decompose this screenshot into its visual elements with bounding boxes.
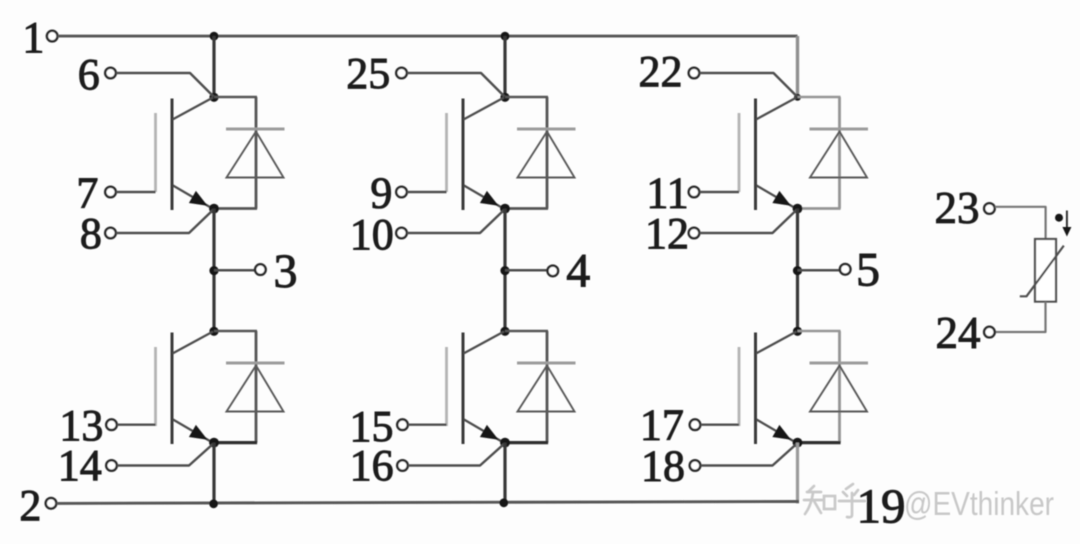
wire: terminal 25 to Q3 collector [407, 73, 505, 97]
wire: Q2 emitter to DC- rail [212, 443, 215, 504]
wire: terminal 11 to Q5 gate [699, 191, 739, 193]
svg-text:5: 5 [856, 243, 880, 296]
terminal pin 18 (aux emitter of Q6) [690, 460, 701, 471]
node: phase output junction (terminal 4) [500, 266, 509, 275]
node: Q4 emitter junction [500, 438, 510, 448]
wire: phase node to terminal 4 [505, 269, 548, 272]
wire: Q2 collector to D2 cathode branch [214, 330, 257, 333]
wire: terminal 15 to Q4 gate [408, 424, 447, 426]
node: Q2 collector junction [209, 327, 218, 336]
thermistor temperature down-arrow [1066, 211, 1068, 230]
wire: terminal 17 to Q6 gate [700, 424, 739, 426]
wire: terminal 7 to Q1 gate [116, 191, 156, 193]
wire: Q1 emitter to Q2 collector (phase rail) [212, 209, 215, 332]
wire: terminal 10 to Q3 emitter [407, 210, 505, 234]
wire: DC+ rail drop to Q3 collector [503, 36, 506, 97]
node: Q5 emitter junction [793, 204, 803, 214]
wire: NTC RT1 to terminal 24 [995, 302, 1046, 332]
wire: D4 anode branch to Q4 emitter [505, 441, 548, 444]
wire: DC+ rail corner drop to leg 3 [796, 36, 799, 97]
terminal pin 4 (phase output) [548, 266, 559, 277]
node: Q2 emitter junction [209, 438, 219, 448]
wire: terminal 9 to Q3 gate [407, 191, 447, 193]
wire: D6 anode branch to Q6 emitter [798, 441, 841, 444]
terminal pin 16 (aux emitter of Q4) [397, 460, 408, 471]
terminal pin 2 (DC- bus) [46, 498, 57, 509]
terminal pin 15 (gate of Q4) [397, 419, 408, 430]
svg-text:3: 3 [274, 245, 298, 298]
IGBT Q5 (upper switch, leg 3) [739, 98, 797, 211]
terminal pin 11 (gate of Q5) [689, 187, 700, 198]
node: Q4 collector junction [500, 327, 509, 336]
thermistor RT1 body [1035, 239, 1056, 302]
node: DC- rail / leg 2 junction [499, 498, 508, 507]
wire: Q6 collector to D6 cathode branch [798, 330, 841, 333]
node: Q3 collector junction [500, 93, 509, 102]
wire: phase node to terminal 5 [798, 269, 841, 272]
terminal pin 14 (aux emitter of Q2) [106, 460, 117, 471]
svg-text:23: 23 [935, 183, 980, 233]
diode D3 (antiparallel to Q3) [517, 97, 576, 209]
node: DC- rail / leg 1 junction [209, 499, 218, 508]
wire: terminal 14 to Q2 emitter [117, 444, 214, 466]
node: Q3 emitter junction [500, 204, 510, 214]
IGBT Q1 (upper switch, leg 1) [156, 98, 214, 211]
terminal pin 6 (aux collector) [105, 68, 116, 79]
svg-text:8: 8 [80, 209, 102, 258]
wire: terminal 23 to NTC RT1 [995, 207, 1046, 240]
svg-text:2: 2 [19, 481, 41, 530]
terminal pin 17 (gate of Q6) [690, 419, 701, 430]
thermistor RT1 diagonal stroke [1020, 246, 1064, 297]
wire: terminal 8 to Q1 emitter [116, 210, 214, 234]
svg-text:22: 22 [639, 47, 683, 96]
wire: DC+ top rail [58, 35, 798, 38]
node: Q6 collector junction [793, 327, 802, 336]
svg-text:25: 25 [346, 49, 390, 98]
node: phase output junction (terminal 5) [793, 266, 802, 275]
wire: Q4 collector to D4 cathode branch [505, 330, 548, 333]
watermark 知乎 logo glyphs [804, 484, 865, 517]
terminal pin 13 (gate of Q2) [106, 419, 117, 430]
terminal pin 23 (NTC) [984, 203, 995, 214]
IGBT Q2 (lower switch, leg 1) [156, 332, 214, 445]
wire: terminal 12 to Q5 emitter [699, 210, 797, 234]
diode D4 (antiparallel to Q4) [517, 331, 576, 443]
wire: terminal 16 to Q4 emitter [408, 444, 505, 466]
terminal pin 24 (NTC) [984, 327, 995, 338]
IGBT Q3 (upper switch, leg 2) [447, 98, 505, 211]
node: Q5 collector junction [794, 94, 801, 101]
wire: Q1 collector to D1 cathode branch [214, 96, 257, 99]
node: Q1 emitter junction [209, 204, 219, 214]
terminal pin 25 (aux collector) [396, 68, 407, 79]
wire: D3 anode branch to Q3 emitter [505, 207, 548, 210]
svg-text:24: 24 [936, 308, 981, 358]
terminal pin 12 (aux emitter of Q5) [689, 228, 700, 239]
node: Q1 collector junction [209, 93, 218, 102]
svg-text:1: 1 [22, 13, 44, 62]
svg-text:10: 10 [350, 210, 394, 259]
IGBT Q4 (lower switch, leg 2) [447, 332, 505, 445]
terminal pin 5 (phase output) [840, 264, 851, 275]
terminal pin 9 (gate of Q3) [396, 187, 407, 198]
wire: DC- bottom rail [56, 502, 799, 504]
terminal pin 7 (gate of Q1) [105, 187, 116, 198]
svg-text:@EVthinker: @EVthinker [904, 485, 1054, 522]
diode D6 (antiparallel to Q6) [810, 331, 869, 443]
node: DC+ rail / leg 1 junction [210, 32, 219, 41]
wire: DC+ rail drop to Q1 collector [212, 36, 215, 97]
wire: D5 anode branch to Q5 emitter [798, 207, 841, 210]
wire: phase node to terminal 3 [214, 269, 255, 272]
wire: Q3 collector to D3 cathode branch [505, 96, 548, 99]
svg-text:19: 19 [857, 479, 906, 534]
diode D5 (antiparallel to Q5) [810, 97, 869, 209]
wire: terminal 13 to Q2 gate [117, 424, 156, 426]
svg-text:12: 12 [645, 209, 689, 258]
wire: Q5 emitter to Q6 collector (phase rail) [796, 209, 799, 332]
svg-text:6: 6 [78, 50, 100, 99]
terminal pin 8 (aux emitter of Q1) [105, 228, 116, 239]
diode D2 (antiparallel to Q2) [226, 331, 285, 443]
node: Q6 emitter junction [793, 438, 803, 448]
svg-text:18: 18 [641, 441, 685, 490]
wire: DC+ rail drop to Q5 collector [796, 36, 799, 97]
wire: Q3 emitter to Q4 collector (phase rail) [503, 209, 506, 332]
thermistor temperature dot mark [1055, 214, 1063, 222]
wire: terminal 18 to Q6 emitter [700, 444, 797, 466]
wire: Q5 collector to D5 cathode branch [798, 96, 841, 99]
terminal pin 10 (aux emitter of Q3) [396, 228, 407, 239]
terminal pin 22 (aux collector) [689, 68, 700, 79]
wire: Q4 emitter to DC- rail [503, 443, 506, 504]
wire: D1 anode branch to Q1 emitter [214, 207, 257, 210]
IGBT Q6 (lower switch, leg 3) [739, 332, 797, 445]
terminal pin 3 (phase output) [255, 264, 266, 275]
wire: terminal 6 to Q1 collector [116, 73, 214, 97]
node: phase output junction (terminal 3) [209, 266, 218, 275]
node: DC+ rail / leg 2 junction [501, 32, 510, 41]
wire: Q6 emitter to DC- rail [796, 443, 799, 504]
wire: D2 anode branch to Q2 emitter [214, 441, 257, 444]
svg-text:14: 14 [58, 441, 102, 490]
svg-text:4: 4 [566, 245, 590, 298]
wire: terminal 22 to Q5 collector [699, 73, 797, 97]
diode D1 (antiparallel to Q1) [226, 97, 285, 209]
svg-text:16: 16 [350, 441, 394, 490]
terminal pin 1 (DC+ bus) [47, 31, 58, 42]
